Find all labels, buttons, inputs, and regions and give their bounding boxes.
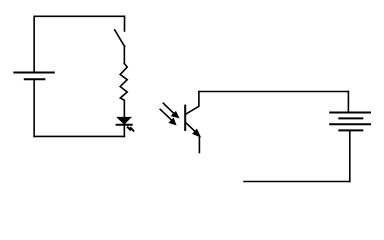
resistor R1	[120, 63, 127, 100]
wire along the bottom of left loop	[34, 135, 124, 137]
battery B1	[14, 73, 53, 80]
wire from battery B1 positive up and across the top	[34, 16, 124, 72]
LED D1	[117, 117, 132, 124]
LED D1 light rays	[127, 127, 134, 132]
phototransistor Q1 emitter lead with arrowhead	[186, 123, 201, 153]
wire down to battery B2	[347, 92, 349, 113]
light arrow lower into phototransistor	[160, 109, 176, 124]
wire along the bottom of right loop	[244, 181, 350, 183]
wire from battery B2 negative down	[349, 130, 351, 181]
wire from switch to resistor	[123, 47, 125, 64]
wire from resistor to LED	[123, 100, 125, 117]
battery B2	[330, 113, 370, 131]
phototransistor Q1 collector lead	[186, 92, 199, 115]
wire from LED down to bottom left corner	[123, 125, 125, 137]
light arrow upper into phototransistor	[163, 103, 178, 118]
phototransistor Q1 base bar	[184, 106, 186, 130]
wire across top of right loop	[199, 91, 349, 93]
switch S1	[115, 16, 125, 46]
wire up to battery B1 negative	[33, 79, 35, 136]
